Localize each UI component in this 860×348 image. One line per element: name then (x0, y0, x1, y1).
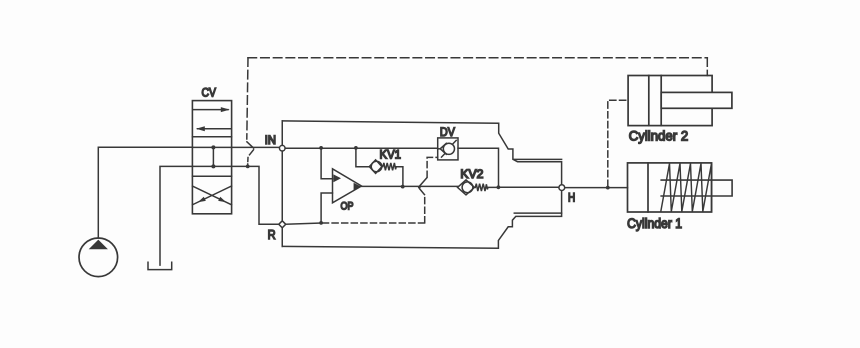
svg-text:IN: IN (265, 135, 276, 147)
svg-text:OP: OP (341, 201, 354, 213)
junction dot OP top input (319, 146, 323, 150)
wire pump to valve P port (98, 147, 192, 238)
svg-text:DV: DV (440, 125, 455, 139)
wire DV output down to KV2 line (458, 148, 499, 187)
wire R line solid (282, 223, 321, 224)
wire H node to Cylinder 1 (565, 187, 628, 189)
wire valve to R node (232, 166, 283, 224)
junction dot cylinder pilot (606, 186, 610, 190)
manifold bottom boundary (282, 191, 561, 249)
wire OP top input (321, 148, 332, 179)
wire IN line inside manifold (282, 147, 437, 149)
wire OP bottom input (321, 193, 332, 223)
valve CV arrow left (top box) (196, 126, 231, 131)
svg-text:CV: CV (202, 86, 217, 100)
wire KV2 junction to H node (498, 186, 559, 188)
valve CV body (192, 101, 231, 214)
wire valve to IN node (232, 146, 283, 148)
pilot dashed Cylinder 2 to Cylinder 1 line (608, 100, 628, 186)
wire OP output H line (362, 185, 458, 187)
node H (559, 185, 565, 191)
pump (79, 238, 118, 277)
svg-text:Cylinder 1: Cylinder 1 (627, 216, 682, 231)
junction dot OP bottom input (319, 221, 323, 225)
cylinder 1 (628, 163, 712, 212)
cylinder 1 spring (661, 164, 712, 212)
junction dot KV1 output (401, 185, 405, 189)
node R (279, 221, 286, 228)
tank (148, 262, 172, 269)
check valve DV (438, 138, 458, 160)
manifold top boundary (282, 121, 561, 185)
manifold left edge (281, 121, 283, 246)
check valve KV1 (356, 148, 403, 187)
cylinder 2 (628, 76, 732, 126)
check valve KV2 (458, 180, 497, 195)
manifold top neck inner line (514, 158, 561, 160)
svg-text:Cylinder 2: Cylinder 2 (629, 128, 689, 144)
junction dot DV/KV2/H (497, 185, 501, 189)
op-amp OP (333, 169, 362, 203)
svg-text:R: R (268, 227, 276, 242)
junction dot KV1 input (354, 146, 358, 150)
valve CV center ports link (192, 145, 231, 168)
wire tank line to valve T port (160, 166, 192, 265)
cylinder 1 rod (661, 180, 732, 196)
pilot dashed top line (to Cylinder 2 rod side) (247, 58, 708, 139)
pilot jog at IN line (247, 142, 254, 167)
valve CV crossed arrows (bottom box) (192, 186, 231, 205)
manifold bottom neck inner line (514, 212, 561, 214)
valve CV arrow right (top box) (193, 107, 229, 112)
pilot dashed R line to DV (323, 157, 438, 223)
junction dot pilot to valve port (246, 165, 250, 169)
svg-text:KV2: KV2 (460, 167, 483, 181)
svg-text:KV1: KV1 (380, 147, 402, 161)
pilot line jog over H line (420, 178, 427, 195)
svg-text:H: H (568, 193, 575, 205)
node IN (279, 145, 285, 151)
